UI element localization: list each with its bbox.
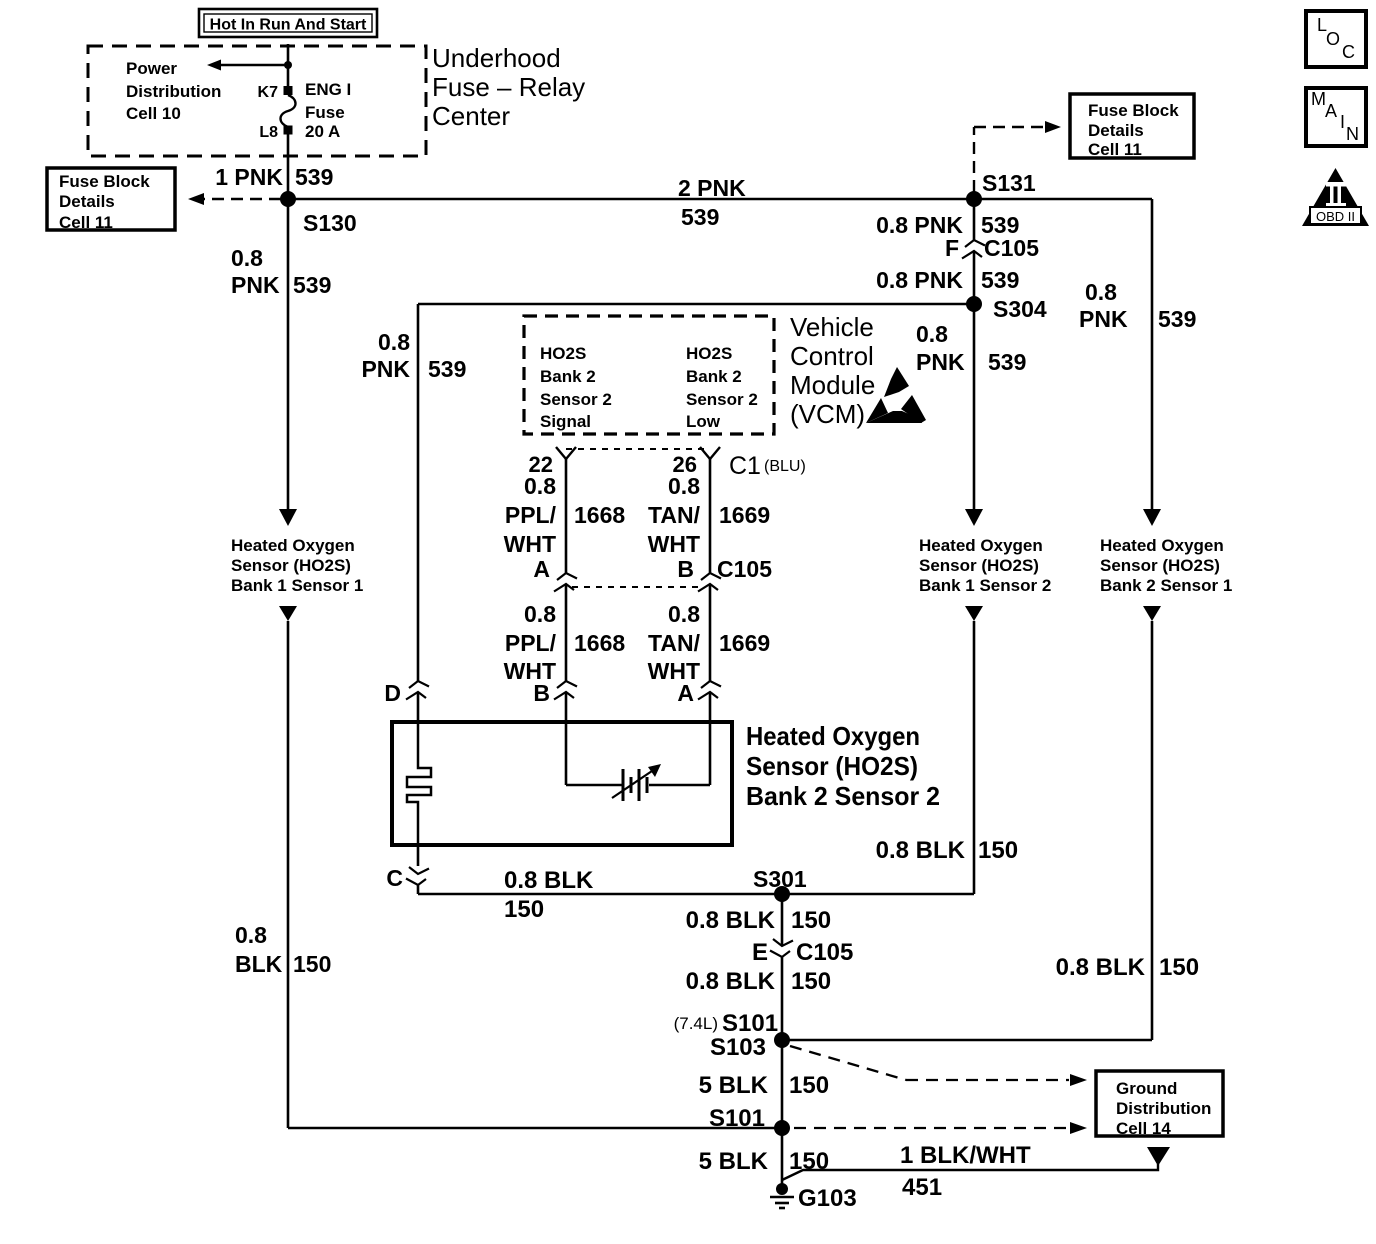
svg-text:1668: 1668 [574, 502, 625, 528]
svg-text:Cell 11: Cell 11 [1088, 140, 1142, 159]
svg-text:Bank 2 Sensor 1: Bank 2 Sensor 1 [1100, 576, 1232, 595]
svg-text:Sensor (HO2S): Sensor (HO2S) [746, 751, 918, 781]
svg-text:5 BLK: 5 BLK [699, 1148, 769, 1175]
svg-text:1668: 1668 [574, 630, 625, 656]
svg-text:WHT: WHT [504, 531, 556, 557]
svg-text:TAN/: TAN/ [648, 502, 701, 528]
svg-text:Power: Power [126, 59, 177, 78]
svg-text:Distribution: Distribution [1116, 1099, 1211, 1118]
svg-text:Details: Details [1088, 121, 1144, 140]
svg-text:G103: G103 [798, 1185, 857, 1212]
svg-text:E: E [752, 939, 768, 966]
svg-text:Fuse Block: Fuse Block [1088, 101, 1179, 120]
svg-text:(BLU): (BLU) [764, 458, 806, 475]
svg-text:PPL/: PPL/ [505, 630, 557, 656]
svg-text:0.8: 0.8 [916, 321, 948, 347]
svg-text:PNK: PNK [231, 272, 280, 298]
svg-text:BLK: BLK [235, 951, 283, 977]
svg-text:Low: Low [686, 412, 721, 431]
svg-text:1 PNK: 1 PNK [215, 164, 283, 190]
svg-text:0.8 BLK: 0.8 BLK [1056, 954, 1146, 981]
svg-text:A: A [677, 680, 694, 706]
svg-text:0.8: 0.8 [1085, 279, 1117, 305]
svg-text:D: D [384, 680, 401, 706]
svg-text:0.8 BLK: 0.8 BLK [686, 907, 776, 934]
svg-text:539: 539 [981, 267, 1019, 293]
svg-text:0.8: 0.8 [235, 922, 267, 948]
svg-text:OBD II: OBD II [1316, 209, 1355, 224]
svg-text:0.8: 0.8 [378, 329, 410, 355]
svg-text:Module: Module [790, 370, 875, 400]
svg-text:S301: S301 [753, 866, 807, 892]
svg-text:539: 539 [295, 164, 333, 190]
svg-text:150: 150 [293, 951, 331, 977]
svg-text:150: 150 [789, 1148, 829, 1175]
svg-text:Heated Oxygen: Heated Oxygen [1100, 536, 1224, 555]
svg-text:A: A [533, 556, 550, 582]
svg-text:C105: C105 [717, 556, 772, 582]
svg-text:Bank 1 Sensor 2: Bank 1 Sensor 2 [919, 576, 1051, 595]
svg-text:0.8: 0.8 [524, 473, 556, 499]
svg-text:WHT: WHT [648, 531, 700, 557]
svg-text:Vehicle: Vehicle [790, 312, 874, 342]
svg-text:HO2S: HO2S [540, 344, 586, 363]
svg-text:Sensor 2: Sensor 2 [540, 390, 612, 409]
svg-text:539: 539 [1158, 306, 1196, 332]
svg-text:0.8: 0.8 [524, 601, 556, 627]
svg-text:539: 539 [681, 204, 719, 230]
svg-text:C105: C105 [984, 235, 1039, 261]
svg-text:Hot In Run And Start: Hot In Run And Start [210, 17, 367, 34]
svg-text:Details: Details [59, 192, 115, 211]
svg-text:TAN/: TAN/ [648, 630, 701, 656]
svg-text:Cell 10: Cell 10 [126, 104, 181, 123]
svg-text:1 BLK/WHT: 1 BLK/WHT [900, 1142, 1031, 1169]
svg-text:Fuse Block: Fuse Block [59, 172, 150, 191]
svg-text:Cell 14: Cell 14 [1116, 1119, 1171, 1138]
svg-text:F: F [945, 235, 959, 261]
svg-text:0.8: 0.8 [668, 473, 700, 499]
svg-text:K7: K7 [258, 84, 279, 101]
svg-text:I: I [1340, 112, 1345, 132]
svg-text:S304: S304 [993, 296, 1047, 322]
svg-text:Sensor (HO2S): Sensor (HO2S) [1100, 556, 1220, 575]
svg-text:0.8 PNK: 0.8 PNK [876, 267, 963, 293]
svg-text:Underhood: Underhood [432, 43, 561, 73]
svg-text:C: C [386, 865, 403, 891]
svg-text:C: C [1342, 42, 1355, 62]
svg-text:0.8 BLK: 0.8 BLK [876, 837, 966, 864]
svg-text:L8: L8 [259, 124, 278, 141]
svg-text:PNK: PNK [916, 349, 965, 375]
svg-text:1669: 1669 [719, 630, 770, 656]
svg-text:150: 150 [791, 968, 831, 995]
svg-text:Control: Control [790, 341, 874, 371]
svg-text:Fuse – Relay: Fuse – Relay [432, 72, 585, 102]
svg-text:Bank 2 Sensor 2: Bank 2 Sensor 2 [746, 781, 940, 811]
svg-text:A: A [1325, 101, 1337, 121]
svg-text:Signal: Signal [540, 412, 591, 431]
svg-text:PPL/: PPL/ [505, 502, 557, 528]
svg-text:1669: 1669 [719, 502, 770, 528]
svg-text:Center: Center [432, 101, 510, 131]
svg-text:S130: S130 [303, 210, 357, 236]
svg-text:Heated Oxygen: Heated Oxygen [231, 536, 355, 555]
svg-text:150: 150 [504, 896, 544, 923]
svg-text:0.8: 0.8 [231, 245, 263, 271]
svg-text:PNK: PNK [1079, 306, 1128, 332]
svg-text:HO2S: HO2S [686, 344, 732, 363]
svg-text:(7.4L): (7.4L) [674, 1014, 718, 1033]
svg-text:Sensor 2: Sensor 2 [686, 390, 758, 409]
svg-text:ENG I: ENG I [305, 80, 351, 99]
svg-text:M: M [1311, 89, 1326, 109]
svg-text:539: 539 [293, 272, 331, 298]
svg-text:C1: C1 [729, 452, 761, 480]
svg-text:Sensor (HO2S): Sensor (HO2S) [231, 556, 351, 575]
svg-text:Bank 1 Sensor 1: Bank 1 Sensor 1 [231, 576, 363, 595]
svg-text:Cell 11: Cell 11 [59, 213, 113, 232]
svg-text:B: B [533, 680, 550, 706]
svg-text:0.8 BLK: 0.8 BLK [504, 867, 594, 894]
svg-text:Heated Oxygen: Heated Oxygen [919, 536, 1043, 555]
svg-text:2 PNK: 2 PNK [678, 175, 746, 201]
svg-text:Distribution: Distribution [126, 82, 221, 101]
svg-text:S101: S101 [709, 1105, 765, 1132]
svg-text:O: O [1326, 29, 1340, 49]
svg-text:S101: S101 [722, 1010, 778, 1037]
svg-text:B: B [677, 556, 694, 582]
svg-text:539: 539 [428, 356, 466, 382]
svg-text:150: 150 [978, 837, 1018, 864]
svg-text:S131: S131 [982, 170, 1036, 196]
svg-text:Bank 2: Bank 2 [686, 367, 742, 386]
svg-text:Fuse: Fuse [305, 103, 345, 122]
svg-text:5 BLK: 5 BLK [699, 1072, 769, 1099]
svg-text:PNK: PNK [361, 356, 410, 382]
svg-text:N: N [1346, 124, 1359, 144]
svg-text:150: 150 [791, 907, 831, 934]
svg-text:S103: S103 [710, 1034, 766, 1061]
svg-text:451: 451 [902, 1174, 942, 1201]
svg-text:150: 150 [1159, 954, 1199, 981]
svg-text:Sensor (HO2S): Sensor (HO2S) [919, 556, 1039, 575]
svg-text:0.8 BLK: 0.8 BLK [686, 968, 776, 995]
svg-text:539: 539 [988, 349, 1026, 375]
svg-text:Heated Oxygen: Heated Oxygen [746, 721, 920, 751]
svg-text:20 A: 20 A [305, 122, 340, 141]
svg-text:0.8: 0.8 [668, 601, 700, 627]
svg-text:150: 150 [789, 1072, 829, 1099]
svg-text:(VCM): (VCM) [790, 399, 865, 429]
svg-text:Bank 2: Bank 2 [540, 367, 596, 386]
svg-text:C105: C105 [796, 939, 853, 966]
svg-text:Ground: Ground [1116, 1079, 1177, 1098]
